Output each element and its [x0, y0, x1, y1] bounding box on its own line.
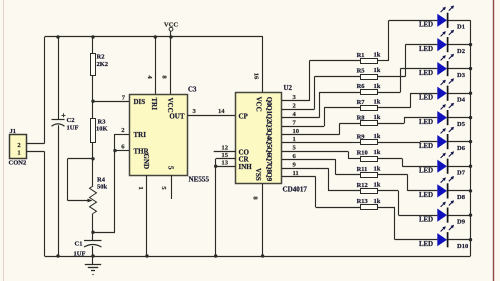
resistor R9 1k [357, 133, 381, 145]
wire Q7 to R11 [282, 160, 361, 175]
junction dot node C1 [91, 231, 94, 234]
svg-text:D1: D1 [457, 24, 465, 31]
svg-text:LED: LED [419, 192, 433, 199]
resistor R1 1k [357, 52, 381, 64]
svg-text:VSS: VSS [254, 168, 262, 181]
svg-text:LED: LED [419, 143, 433, 150]
wire R4 wiper bypass [68, 159, 94, 203]
svg-text:C2: C2 [67, 117, 75, 124]
wire R2 to DIS node [92, 76, 94, 102]
junction dot bus D2 [469, 43, 472, 46]
junction dot R2 top on rail [91, 35, 94, 38]
wire Q1 to R5 [282, 77, 361, 110]
LED D6 [419, 127, 466, 152]
svg-text:14: 14 [218, 108, 225, 115]
wire 4017 pin13 INH to ground [216, 166, 236, 168]
wire ground bottom rail [45, 256, 471, 258]
LED D9 [419, 200, 466, 225]
LED D5 [419, 103, 466, 128]
svg-text:D4: D4 [457, 97, 466, 104]
svg-text:5: 5 [160, 186, 167, 190]
svg-text:1UF: 1UF [74, 251, 86, 258]
svg-text:LED: LED [419, 22, 433, 29]
junction dot C2 bottom on rail [56, 254, 59, 257]
svg-text:1UF: 1UF [67, 125, 79, 132]
svg-text:1k: 1k [374, 98, 381, 105]
junction dot bus D7 [469, 165, 472, 168]
junction dot node TRI-THR [91, 157, 94, 160]
svg-text:1k: 1k [374, 198, 381, 205]
resistor R11 1k [357, 165, 381, 177]
junction dot bus D6 [469, 140, 472, 143]
wire 4017 pin8 VSS to rail [262, 184, 264, 256]
svg-text:1: 1 [137, 186, 144, 189]
svg-text:5: 5 [293, 145, 297, 152]
svg-text:LED: LED [419, 70, 433, 77]
svg-text:5: 5 [166, 166, 174, 170]
svg-text:16: 16 [253, 73, 260, 80]
junction dot 4017 pin8 on rail [261, 254, 264, 257]
svg-text:R3: R3 [98, 119, 107, 126]
svg-text:LED: LED [419, 95, 433, 102]
capacitor C2 1UF polarized [52, 113, 79, 131]
wire VCC rail down to C2 [58, 37, 60, 120]
wire D6 cathode to bus [448, 141, 470, 143]
LED D7 [419, 151, 466, 176]
LED D8 [419, 176, 466, 201]
svg-text:9: 9 [293, 161, 297, 168]
wire D9 cathode to bus [448, 215, 470, 217]
svg-text:R10: R10 [357, 150, 368, 157]
wire Q8 to R12 [282, 168, 361, 191]
wire R8 to LED D5 [378, 118, 437, 124]
svg-text:U2: U2 [284, 85, 293, 92]
wire C2 bottom to ground rail [58, 125, 60, 256]
wire R6 to LED D3 [378, 69, 437, 93]
potentiometer R4 50k [90, 159, 108, 232]
svg-text:15: 15 [221, 152, 228, 159]
svg-text:R2: R2 [97, 54, 105, 61]
wire R9 to LED D6 [378, 142, 437, 143]
svg-text:4: 4 [146, 75, 153, 79]
wire D2 cathode to bus [448, 44, 470, 46]
wire D10 cathode to bus [448, 239, 470, 241]
svg-text:10: 10 [293, 128, 300, 135]
capacitor C1 1UF [74, 232, 102, 257]
junction dot bus D5 [469, 116, 472, 119]
wire 4017 pin15 CR to ground [216, 158, 236, 160]
svg-text:2: 2 [293, 103, 297, 110]
junction dot C2 top on rail [56, 35, 59, 38]
LED D3 [419, 54, 466, 79]
svg-text:R11: R11 [357, 166, 368, 173]
svg-text:1k: 1k [374, 182, 381, 189]
svg-text:R4: R4 [97, 177, 106, 184]
svg-text:D3: D3 [457, 72, 466, 79]
wire R5 to LED D2 [378, 45, 437, 77]
svg-text:C3: C3 [188, 87, 197, 94]
svg-text:2K2: 2K2 [97, 61, 109, 68]
junction dot node DIS [91, 100, 94, 103]
wire R12 to LED D9 [378, 191, 437, 216]
svg-text:D8: D8 [457, 194, 466, 201]
LED D2 [419, 30, 465, 55]
wire R1 to LED D1 [378, 20, 437, 61]
svg-text:D7: D7 [457, 170, 466, 177]
svg-text:1k: 1k [374, 83, 381, 90]
svg-text:R12: R12 [357, 182, 368, 189]
junction dot CR-INH on rail [214, 254, 217, 257]
wire C1 node to 555 TRI/THR pins [93, 134, 130, 233]
svg-text:Q9: Q9 [265, 172, 273, 181]
sheet border right (red) [493, 0, 495, 281]
svg-text:CP: CP [239, 113, 249, 121]
svg-text:LED: LED [419, 216, 433, 223]
svg-text:1k: 1k [374, 67, 381, 74]
resistor R6 1k [357, 83, 381, 95]
wire D5 cathode to bus [448, 117, 470, 119]
svg-text:D2: D2 [457, 48, 465, 55]
svg-text:8: 8 [251, 196, 258, 200]
junction dot bus D4 [469, 92, 472, 95]
svg-text:NE555: NE555 [189, 176, 210, 184]
svg-text:VCC: VCC [166, 98, 174, 113]
wire D1 cathode to bus [448, 20, 470, 22]
svg-text:10K: 10K [96, 126, 108, 133]
LED D10 [419, 225, 468, 250]
wire Q3 to R7 [282, 108, 361, 127]
wire D8 cathode to bus [448, 190, 470, 192]
resistor R8 1k [357, 114, 381, 126]
wire Q9 to R13 [282, 177, 361, 208]
svg-text:LED: LED [419, 119, 433, 126]
svg-text:1k: 1k [374, 133, 381, 140]
svg-text:R13: R13 [357, 198, 369, 205]
wire Q5 to R9 [282, 141, 361, 144]
svg-text:7: 7 [122, 95, 126, 102]
svg-text:13: 13 [221, 159, 228, 166]
svg-text:1k: 1k [374, 114, 381, 121]
resistor R7 1k [357, 98, 381, 110]
svg-text:R9: R9 [357, 133, 366, 140]
svg-text:3: 3 [193, 108, 197, 115]
svg-text:TRI: TRI [150, 98, 158, 111]
junction dot VCC stem and 555 pin8 on rail [169, 35, 172, 38]
wire Q0 to R1 [282, 61, 361, 102]
wire rail to 555 pin4 [155, 37, 157, 94]
svg-text:LED: LED [419, 46, 433, 53]
svg-text:1: 1 [17, 149, 20, 156]
svg-text:R1: R1 [357, 52, 365, 59]
svg-text:1k: 1k [374, 165, 381, 172]
LED D1 [419, 5, 465, 30]
junction dot bus D3 [469, 67, 472, 70]
wire D4 cathode to bus [448, 93, 470, 95]
resistor R10 1k [357, 149, 381, 161]
wire R7 to LED D4 [378, 93, 437, 108]
wire THR pin6 [115, 150, 130, 152]
wire Q6 to R10 [282, 151, 361, 158]
power symbol VCC [164, 22, 179, 38]
sheet border left (pink) [3, 0, 5, 281]
svg-text:VCC: VCC [164, 22, 179, 29]
svg-text:11: 11 [293, 170, 299, 177]
wire 555 pin5 stub [171, 175, 173, 199]
wire Q2 to R6 [282, 92, 361, 118]
svg-text:2: 2 [17, 142, 20, 149]
ground symbol [85, 256, 101, 275]
wire CR-INH down to rail [215, 159, 217, 256]
wire 555 OUT to 4017 CP [187, 115, 236, 117]
svg-text:D10: D10 [457, 243, 468, 250]
wire rail to R2 [92, 37, 94, 54]
svg-text:50k: 50k [97, 184, 108, 191]
svg-text:R8: R8 [357, 114, 366, 121]
wire R11 to LED D8 [378, 175, 437, 191]
svg-text:D5: D5 [457, 121, 466, 128]
svg-text:1k: 1k [374, 52, 381, 59]
op-amp timer U 555 body [130, 87, 210, 184]
svg-text:CD4017: CD4017 [283, 186, 308, 194]
wire R13 to LED D10 [378, 207, 437, 240]
wire rail to 4017 pin16 [262, 37, 264, 93]
svg-text:R6: R6 [357, 83, 366, 90]
svg-text:R5: R5 [357, 68, 366, 75]
svg-text:VCC: VCC [255, 97, 263, 112]
resistor R5 1k [357, 67, 381, 79]
svg-text:2: 2 [121, 127, 125, 134]
svg-text:J1: J1 [10, 128, 17, 135]
svg-text:D6: D6 [457, 145, 466, 152]
wire LED cathode bus [470, 20, 472, 256]
svg-text:R7: R7 [357, 99, 366, 106]
svg-text:LED: LED [419, 241, 433, 248]
wire 4017 pin12 CO stub [214, 151, 236, 153]
svg-text:TRI: TRI [134, 131, 147, 139]
connector J1 CON2 [9, 128, 27, 167]
svg-text:12: 12 [221, 145, 228, 152]
resistor R3 10K [91, 101, 108, 159]
wire 555 pin1 GND to rail [146, 175, 148, 256]
wire D3 cathode to bus [448, 68, 470, 70]
wire J1 pin2 to VCC rail [27, 37, 45, 144]
junction dot bus D8 [469, 189, 472, 192]
svg-text:DIS: DIS [134, 98, 146, 106]
resistor R2 2K2 [91, 54, 109, 76]
svg-text:OUT: OUT [169, 112, 185, 120]
resistor R13 1k [357, 198, 381, 210]
junction dot 555 pin4 stem on rail [154, 35, 157, 38]
wire rail to 555 pin8 [170, 37, 172, 94]
junction dot bus D10 [469, 238, 472, 241]
svg-text:GND: GND [142, 154, 150, 170]
LED D4 [419, 78, 466, 103]
svg-text:1k: 1k [374, 149, 381, 156]
wire DIS node to 555 pin7 [93, 101, 130, 103]
svg-text:LED: LED [419, 168, 433, 175]
wire J1 pin1 to ground rail [27, 152, 45, 257]
svg-text:D9: D9 [457, 218, 466, 225]
svg-text:6: 6 [121, 144, 125, 151]
svg-text:C1: C1 [75, 241, 83, 248]
junction dot THR join [113, 149, 116, 152]
svg-text:7: 7 [293, 119, 297, 126]
svg-text:INH: INH [239, 163, 253, 171]
resistor R12 1k [357, 182, 381, 194]
junction dot 555 pin1 on rail [145, 254, 148, 257]
wire Q4 to R8 [282, 123, 361, 134]
junction dot INH join [214, 165, 217, 168]
wire R10 to LED D7 [378, 159, 437, 167]
junction dot C1 bottom on rail [91, 254, 94, 257]
svg-text:8: 8 [160, 75, 167, 79]
svg-text:CON2: CON2 [9, 160, 27, 167]
counter U2 CD4017 body [236, 85, 308, 194]
junction dot bus D9 [469, 213, 472, 216]
wire D7 cathode to bus [448, 166, 470, 168]
wire VCC top rail [45, 36, 264, 38]
